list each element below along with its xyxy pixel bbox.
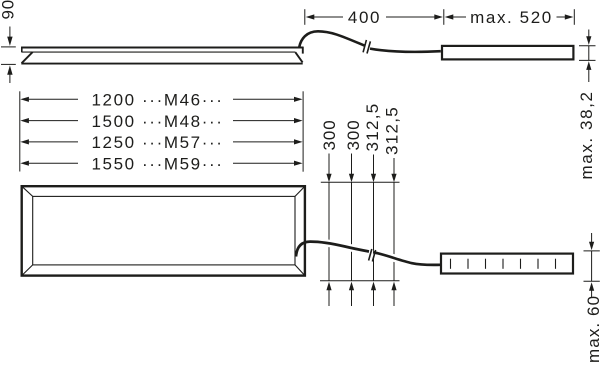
dim max.38,2 connector line: [588, 46, 590, 60]
suspension dim line 2: [351, 182, 353, 280]
dim 400 left tick: [304, 9, 306, 25]
cable bottom view white casing: [308, 242, 438, 265]
dim max.60 upper arrow: [589, 233, 594, 250]
suspension dim line 3 lower arrow: [371, 282, 376, 306]
dim 400 left arrow: [306, 14, 343, 19]
suspension dim line 4: [393, 182, 395, 280]
dim row 1550 M59: [20, 154, 302, 173]
svg-text:1500 ···M48···: 1500 ···M48···: [92, 112, 224, 131]
luminaire side view bottom line: [21, 63, 302, 65]
suspension dim line 1 lower arrow: [326, 282, 331, 306]
cable side view right segment: [370, 49, 441, 52]
driver box tick marks: [451, 259, 556, 269]
luminaire side view top line: [21, 47, 303, 49]
svg-text:312,5: 312,5: [363, 102, 382, 151]
svg-text:1550 ···M59···: 1550 ···M59···: [92, 154, 224, 173]
dim row 1200 M46: [20, 91, 302, 110]
dim max.38,2 lower arrow: [586, 61, 591, 82]
dim 400 / max.520 shared tick: [443, 9, 445, 25]
cable bottom view right segment: [374, 252, 442, 265]
svg-text:300: 300: [344, 119, 363, 150]
bevel diagonal bottom-left: [22, 265, 33, 276]
svg-text:max. 520: max. 520: [470, 8, 553, 27]
dim max.520 right arrow: [557, 14, 574, 19]
svg-text:1250 ···M57···: 1250 ···M57···: [92, 133, 224, 152]
svg-text:300: 300: [320, 119, 339, 150]
luminaire side view right wedge diagonal: [295, 52, 302, 62]
luminaire bottom view outer rect: [22, 186, 305, 275]
dim max.38,2 top tick: [579, 45, 596, 47]
luminaire side view left wedge diagonal: [22, 52, 33, 63]
dim max.520 left arrow: [445, 14, 466, 19]
driver box bottom view: [441, 254, 573, 274]
length dims left extension line: [19, 91, 21, 171]
dim row 1250 M57: [20, 133, 302, 152]
cable bottom view left segment: [296, 242, 369, 257]
svg-text:max. 60: max. 60: [584, 295, 600, 363]
suspension dim line 3 upper arrow: [371, 155, 376, 183]
dim max.38,2 upper arrow: [586, 30, 591, 45]
bevel diagonal bottom-right: [295, 265, 305, 276]
dim max.520 right tick: [573, 9, 575, 25]
suspension dim line 2 lower arrow: [349, 282, 354, 306]
dim 90 top extension line: [1, 46, 16, 48]
dim max.60 top tick: [584, 250, 600, 252]
suspension dim line 1 upper arrow: [326, 154, 331, 183]
suspension dim line 1: [328, 182, 330, 280]
svg-text:90: 90: [0, 0, 18, 20]
svg-text:1200 ···M46···: 1200 ···M46···: [92, 91, 224, 110]
dim max.60 lower arrow: [589, 282, 594, 297]
suspension dim line 2 upper arrow: [349, 154, 354, 183]
dim 90 lower arrow: [7, 65, 12, 83]
dim row 1500 M48: [20, 112, 302, 131]
dim max.38,2 bottom tick: [579, 59, 596, 61]
suspension top reference line: [321, 181, 400, 183]
length dims right extension line: [302, 91, 304, 171]
dim 90 upper arrow: [7, 27, 12, 46]
cable break symbol (bottom view): [369, 249, 376, 262]
bevel diagonal top-left: [22, 186, 33, 196]
luminaire side view inner ledge line: [22, 51, 296, 53]
dim max.60 connector line: [591, 251, 593, 281]
luminaire side view right end cap: [302, 47, 304, 54]
dim max.60 bottom tick: [584, 280, 600, 282]
cable side view left segment: [299, 31, 365, 47]
svg-text:max. 38,2: max. 38,2: [577, 90, 596, 179]
dim 400 right arrow: [386, 14, 443, 19]
suspension bottom reference line: [320, 280, 400, 282]
luminaire side view left end cap: [21, 47, 23, 53]
dim 90 bottom extension line: [1, 63, 16, 65]
suspension dim line 4 lower arrow: [391, 282, 396, 306]
driver box side view: [442, 46, 573, 60]
bevel diagonal top-right: [295, 186, 305, 196]
svg-text:312,5: 312,5: [383, 106, 402, 155]
cable break symbol (side view): [363, 40, 370, 54]
svg-text:400: 400: [348, 8, 381, 27]
suspension dim line 4 upper arrow: [391, 158, 396, 182]
suspension dim line 3: [373, 182, 375, 280]
luminaire bottom view inner rect: [33, 196, 295, 265]
